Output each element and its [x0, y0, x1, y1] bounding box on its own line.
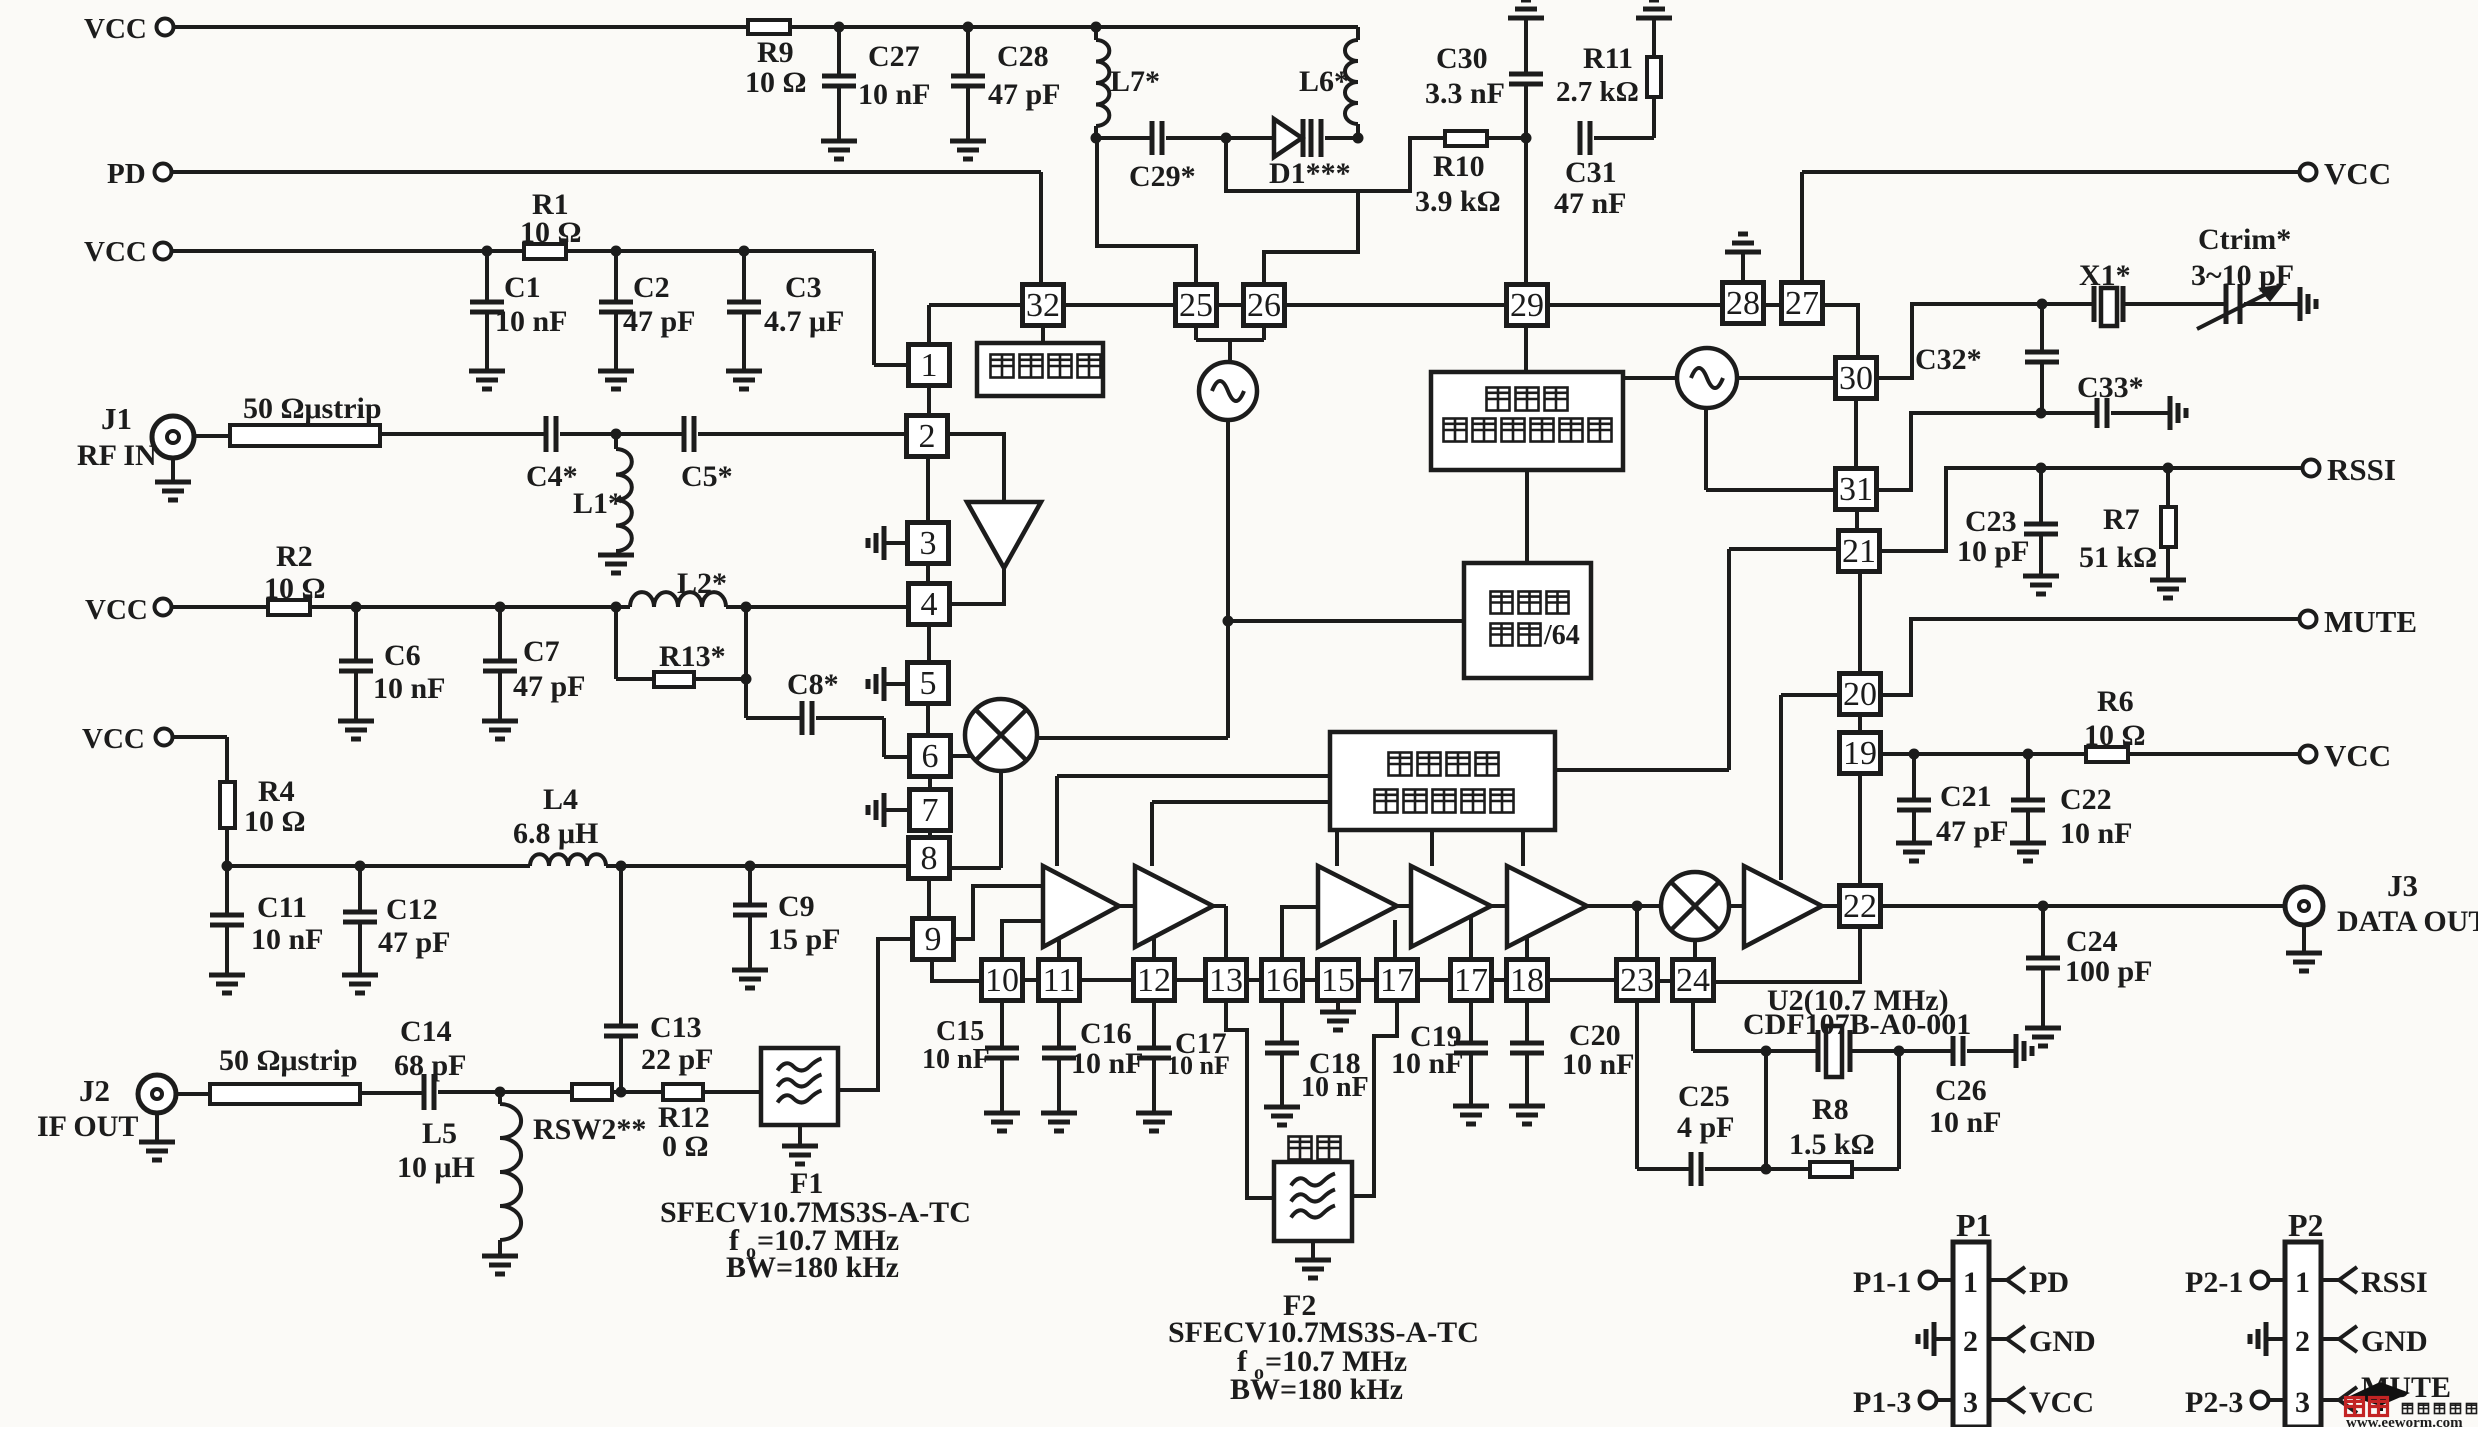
svg-text:C33*: C33*: [2077, 371, 2144, 404]
svg-text:P2-3: P2-3: [2185, 1386, 2243, 1419]
svg-text:X1*: X1*: [2079, 259, 2131, 292]
svg-text:C7: C7: [523, 635, 560, 668]
svg-text:10 nF: 10 nF: [1301, 1072, 1369, 1103]
svg-text:10 nF: 10 nF: [1562, 1048, 1635, 1081]
svg-text:C2: C2: [633, 271, 670, 304]
svg-text:10 pF: 10 pF: [1957, 535, 2030, 568]
svg-text:C12: C12: [386, 893, 438, 926]
svg-text:C32*: C32*: [1915, 343, 1982, 376]
svg-text:32: 32: [1026, 287, 1060, 324]
svg-text:25: 25: [1179, 287, 1213, 324]
svg-text:23: 23: [1620, 962, 1654, 999]
svg-text:0 Ω: 0 Ω: [662, 1130, 709, 1163]
svg-text:GND: GND: [2361, 1325, 2428, 1358]
svg-text:31: 31: [1839, 471, 1873, 508]
svg-text:47 pF: 47 pF: [623, 305, 696, 338]
svg-text:VCC: VCC: [84, 13, 147, 45]
svg-text:12: 12: [1137, 962, 1171, 999]
svg-text:C3: C3: [785, 271, 822, 304]
svg-text:51 kΩ: 51 kΩ: [2079, 541, 2157, 574]
svg-text:R9: R9: [757, 36, 794, 69]
svg-text:5: 5: [920, 665, 937, 702]
svg-text:2: 2: [1963, 1325, 1978, 1358]
svg-text:P1: P1: [1956, 1207, 1992, 1243]
svg-text:26: 26: [1247, 287, 1281, 324]
svg-text:3~10 pF: 3~10 pF: [2191, 259, 2294, 292]
svg-text:11: 11: [1043, 962, 1076, 999]
svg-text:3.9 kΩ: 3.9 kΩ: [1415, 185, 1501, 218]
svg-text:22 pF: 22 pF: [641, 1043, 714, 1076]
svg-text:10 nF: 10 nF: [858, 78, 931, 111]
svg-text:1: 1: [921, 347, 938, 384]
svg-text:GND: GND: [2029, 1325, 2096, 1358]
svg-text:VCC: VCC: [2324, 738, 2391, 773]
svg-text:C15: C15: [936, 1016, 984, 1047]
svg-text:PD: PD: [107, 158, 146, 190]
svg-text:C26: C26: [1935, 1074, 1987, 1107]
svg-text:16: 16: [1265, 962, 1299, 999]
svg-text:P1-1: P1-1: [1853, 1266, 1911, 1299]
svg-text:13: 13: [1209, 962, 1243, 999]
svg-text:1.5 kΩ: 1.5 kΩ: [1789, 1128, 1875, 1161]
svg-text:C13: C13: [650, 1011, 702, 1044]
svg-text:47 pF: 47 pF: [988, 78, 1061, 111]
svg-text:47 pF: 47 pF: [513, 670, 586, 703]
svg-text:20: 20: [1843, 676, 1877, 713]
svg-text:6.8 μH: 6.8 μH: [513, 817, 598, 850]
svg-text:19: 19: [1843, 735, 1877, 772]
svg-text:3: 3: [920, 525, 937, 562]
svg-text:18: 18: [1510, 962, 1544, 999]
svg-text:VCC: VCC: [84, 236, 147, 268]
svg-text:L7*: L7*: [1110, 65, 1160, 98]
svg-text:C29*: C29*: [1129, 160, 1196, 193]
svg-text:9: 9: [925, 921, 942, 958]
svg-text:R4: R4: [258, 775, 295, 808]
svg-text:10 Ω: 10 Ω: [2084, 719, 2146, 752]
svg-text:C8*: C8*: [787, 668, 839, 701]
svg-text:C9: C9: [778, 890, 815, 923]
svg-text:10 nF: 10 nF: [2060, 817, 2133, 850]
svg-text:C4*: C4*: [526, 460, 578, 493]
svg-text:10 nF: 10 nF: [373, 672, 446, 705]
svg-text:/64: /64: [1543, 620, 1580, 651]
svg-text:J3: J3: [2387, 868, 2418, 903]
svg-text:D1***: D1***: [1269, 157, 1351, 190]
svg-text:L2*: L2*: [677, 567, 727, 600]
svg-text:10 Ω: 10 Ω: [264, 572, 326, 605]
svg-text:3: 3: [1963, 1386, 1978, 1419]
svg-text:RF IN: RF IN: [77, 439, 157, 472]
svg-text:Ctrim*: Ctrim*: [2198, 223, 2291, 256]
svg-text:C30: C30: [1436, 42, 1488, 75]
svg-text:3.3 nF: 3.3 nF: [1425, 77, 1505, 110]
svg-text:C27: C27: [868, 40, 920, 73]
svg-text:4.7 μF: 4.7 μF: [764, 305, 844, 338]
svg-text:22: 22: [1843, 888, 1877, 925]
svg-text:PD: PD: [2029, 1266, 2069, 1299]
svg-text:10 nF: 10 nF: [1929, 1106, 2002, 1139]
svg-text:17: 17: [1454, 962, 1488, 999]
svg-text:C5*: C5*: [681, 460, 733, 493]
svg-text:C21: C21: [1940, 780, 1992, 813]
svg-text:2.7 kΩ: 2.7 kΩ: [1556, 76, 1639, 108]
svg-text:L4: L4: [543, 783, 578, 816]
svg-text:C6: C6: [384, 639, 421, 672]
svg-text:L5: L5: [422, 1117, 457, 1150]
svg-text:P2: P2: [2288, 1207, 2324, 1243]
svg-text:4 pF: 4 pF: [1677, 1111, 1735, 1144]
svg-text:27: 27: [1785, 285, 1819, 322]
svg-text:10 nF: 10 nF: [1391, 1047, 1464, 1080]
svg-text:P1-3: P1-3: [1853, 1386, 1911, 1419]
svg-text:VCC: VCC: [85, 594, 148, 626]
svg-text:C11: C11: [257, 891, 307, 924]
svg-text:10 nF: 10 nF: [251, 923, 324, 956]
svg-text:68 pF: 68 pF: [394, 1049, 467, 1082]
svg-text:1: 1: [1963, 1266, 1978, 1299]
svg-text:10 nF: 10 nF: [1167, 1051, 1230, 1080]
svg-text:10: 10: [985, 962, 1019, 999]
svg-text:10 Ω: 10 Ω: [745, 66, 807, 99]
svg-text:J1: J1: [101, 401, 132, 436]
svg-text:www.eeworm.com: www.eeworm.com: [2346, 1415, 2463, 1427]
svg-text:C1: C1: [504, 271, 541, 304]
svg-text:50 Ωμstrip: 50 Ωμstrip: [219, 1044, 358, 1077]
svg-text:1: 1: [2295, 1266, 2310, 1299]
svg-text:7: 7: [922, 792, 939, 829]
svg-text:L6*: L6*: [1299, 65, 1349, 98]
svg-text:C22: C22: [2060, 783, 2112, 816]
svg-text:6: 6: [922, 738, 939, 775]
svg-text:L1*: L1*: [573, 487, 623, 520]
svg-text:50 Ωμstrip: 50 Ωμstrip: [243, 392, 382, 425]
svg-text:C14: C14: [400, 1015, 452, 1048]
svg-text:BW=180 kHz: BW=180 kHz: [1230, 1373, 1403, 1406]
svg-text:21: 21: [1842, 533, 1876, 570]
svg-text:RSW2**: RSW2**: [533, 1113, 646, 1146]
svg-text:4: 4: [921, 586, 938, 623]
svg-text:R13*: R13*: [659, 640, 726, 673]
svg-text:30: 30: [1839, 360, 1873, 397]
svg-text:C16: C16: [1080, 1017, 1132, 1050]
svg-text:BW=180 kHz: BW=180 kHz: [726, 1251, 899, 1284]
svg-text:DATA OUT: DATA OUT: [2337, 905, 2478, 938]
svg-text:2: 2: [2295, 1325, 2310, 1358]
svg-text:10 nF: 10 nF: [495, 305, 568, 338]
svg-text:VCC: VCC: [82, 723, 145, 755]
svg-text:CDF107B-A0-001: CDF107B-A0-001: [1743, 1008, 1971, 1041]
svg-text:VCC: VCC: [2324, 156, 2391, 191]
svg-text:28: 28: [1726, 285, 1760, 322]
svg-text:C25: C25: [1678, 1080, 1730, 1113]
svg-text:C23: C23: [1965, 505, 2017, 538]
svg-text:29: 29: [1510, 287, 1544, 324]
svg-text:J2: J2: [79, 1073, 110, 1108]
svg-text:47 pF: 47 pF: [378, 926, 451, 959]
svg-text:24: 24: [1676, 962, 1710, 999]
svg-text:P2-1: P2-1: [2185, 1266, 2243, 1299]
svg-text:R10: R10: [1433, 150, 1485, 183]
svg-text:17: 17: [1380, 962, 1414, 999]
svg-text:47 nF: 47 nF: [1554, 187, 1627, 220]
svg-text:47 pF: 47 pF: [1936, 815, 2009, 848]
svg-text:VCC: VCC: [2029, 1386, 2094, 1419]
svg-text:C24: C24: [2066, 925, 2118, 958]
svg-text:2: 2: [919, 418, 936, 455]
svg-text:C28: C28: [997, 40, 1049, 73]
svg-text:RSSI: RSSI: [2327, 452, 2396, 487]
svg-text:10 Ω: 10 Ω: [520, 216, 582, 249]
svg-text:10 Ω: 10 Ω: [244, 805, 306, 838]
svg-text:10 nF: 10 nF: [1071, 1047, 1144, 1080]
svg-text:3: 3: [2295, 1386, 2310, 1419]
svg-text:R6: R6: [2097, 685, 2134, 718]
svg-text:R11: R11: [1583, 42, 1633, 75]
svg-text:8: 8: [921, 840, 938, 877]
svg-text:10 μH: 10 μH: [397, 1151, 475, 1184]
svg-text:15 pF: 15 pF: [768, 923, 841, 956]
svg-text:R2: R2: [276, 540, 313, 573]
svg-text:R7: R7: [2103, 503, 2140, 536]
svg-text:MUTE: MUTE: [2324, 604, 2417, 639]
svg-text:IF OUT: IF OUT: [37, 1110, 138, 1143]
svg-text:C31: C31: [1565, 156, 1617, 189]
svg-text:100 pF: 100 pF: [2065, 955, 2153, 988]
svg-text:R8: R8: [1812, 1093, 1849, 1126]
svg-text:RSSI: RSSI: [2361, 1266, 2428, 1299]
svg-text:15: 15: [1321, 962, 1355, 999]
svg-text:10 nF: 10 nF: [922, 1044, 990, 1075]
